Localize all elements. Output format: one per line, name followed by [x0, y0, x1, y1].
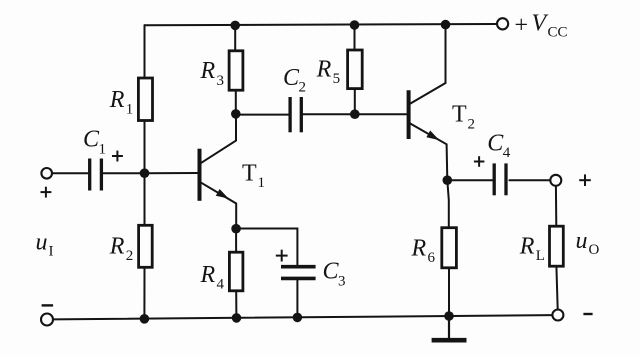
wire bottom ground rail: [53, 315, 553, 319]
label uO: [576, 228, 600, 258]
node rail-R2 bottom junction: [140, 314, 150, 324]
resistor R2: [139, 225, 153, 267]
wire R3 bottom to node B: [235, 90, 237, 114]
svg-text:R: R: [109, 233, 125, 259]
node rail-T2 collector junction: [441, 20, 451, 30]
capacitor C4: [494, 163, 506, 195]
svg-text:O: O: [589, 242, 600, 258]
svg-text:4: 4: [217, 277, 225, 293]
resistor R6: [442, 228, 457, 268]
wire R5 bottom to node C: [354, 89, 356, 115]
resistor R3: [229, 51, 243, 90]
label + polarity C3: [276, 250, 288, 262]
svg-text:R: R: [109, 87, 125, 113]
node rail-R5 junction: [350, 20, 360, 30]
wire top supply rail: [145, 24, 498, 25]
wire node E to C4: [447, 179, 492, 181]
wire R2 bottom to ground rail: [143, 267, 145, 319]
label T2: [452, 102, 475, 133]
svg-text:C: C: [323, 259, 340, 285]
wire node D to C3 top: [236, 229, 297, 265]
svg-text:1: 1: [99, 141, 107, 157]
svg-text:V: V: [532, 10, 549, 36]
label + polarity C4: [474, 156, 485, 167]
label R2: [109, 233, 134, 264]
terminal output top: [550, 175, 561, 186]
svg-text:3: 3: [338, 273, 346, 289]
resistor R1: [138, 78, 152, 121]
node D T1 emitter junction: [231, 224, 241, 234]
wire R6 bottom to ground rail: [448, 268, 450, 316]
label R6: [411, 235, 436, 266]
label C2: [283, 65, 306, 96]
wire RL bottom to output bottom terminal: [556, 266, 557, 309]
label C4: [487, 130, 511, 161]
wire C4 to output terminal: [509, 179, 550, 181]
transistor T1: [200, 149, 229, 201]
wire C1 to node A: [103, 172, 145, 174]
svg-text:C: C: [283, 65, 300, 91]
label + polarity C1: [112, 151, 123, 162]
label R5: [316, 56, 341, 87]
wire node A to T1 base: [145, 172, 198, 174]
label R4: [200, 262, 225, 293]
node C R5 bottom junction: [350, 109, 360, 119]
svg-text:3: 3: [217, 73, 225, 89]
svg-text:5: 5: [333, 71, 341, 87]
svg-text:T: T: [242, 160, 257, 186]
svg-text:CC: CC: [548, 24, 568, 40]
svg-text:R: R: [200, 262, 216, 288]
node E T2 emitter junction: [443, 175, 453, 185]
wire R5 top drop from rail: [354, 25, 356, 50]
wire R1 bottom to input node to R2 top: [144, 121, 146, 226]
resistor R4: [229, 252, 243, 291]
terminal input bottom: [41, 314, 53, 326]
label C1: [83, 127, 106, 158]
wire output terminal down to RL top: [555, 186, 557, 226]
label T1: [242, 160, 265, 191]
wire T1 collector up to node B: [201, 114, 237, 164]
svg-text:T: T: [452, 102, 467, 128]
resistor RL: [550, 226, 564, 266]
wire R1 top drop from rail: [144, 25, 146, 78]
label - at input bottom terminal: [42, 304, 54, 306]
node rail-C3 bottom junction: [293, 313, 303, 323]
svg-text:4: 4: [503, 145, 511, 161]
label C3: [323, 259, 346, 290]
wire T2 emitter down to node E: [410, 123, 447, 180]
terminal output bottom: [552, 310, 563, 321]
svg-text:R: R: [411, 235, 427, 261]
node rail-R4 bottom junction: [232, 313, 242, 323]
capacitor C2: [290, 97, 301, 132]
resistor R5: [348, 50, 363, 89]
node B R3 bottom junction: [231, 109, 241, 119]
wire R3 top drop from rail: [234, 25, 236, 50]
svg-text:R: R: [316, 56, 332, 82]
svg-text:2: 2: [126, 248, 134, 264]
label uI: [36, 229, 54, 259]
label + at output terminal: [579, 174, 591, 186]
capacitor C3: [281, 267, 316, 279]
svg-text:u: u: [576, 228, 588, 254]
svg-text:+: +: [515, 12, 529, 38]
svg-text:2: 2: [299, 80, 307, 96]
wire R4 bottom to ground rail: [235, 291, 237, 318]
terminal input top: [41, 168, 52, 179]
label RL: [519, 233, 545, 264]
label R1: [109, 87, 134, 118]
wire node B to C2: [236, 114, 288, 116]
svg-text:R: R: [200, 58, 216, 84]
wire C2 to node C: [303, 113, 355, 115]
node rail-ground junction: [444, 311, 454, 321]
svg-text:u: u: [36, 229, 48, 255]
svg-text:2: 2: [468, 117, 476, 133]
wire node E down to R6 top: [447, 180, 449, 228]
terminal VCC: [497, 18, 508, 29]
wire node C to T2 base: [355, 113, 407, 115]
label +VCC: [515, 10, 568, 40]
label - at output bottom terminal: [583, 313, 592, 315]
wire T2 collector up to rail: [410, 25, 446, 104]
svg-text:R: R: [519, 233, 535, 259]
svg-text:1: 1: [258, 175, 266, 191]
svg-text:I: I: [49, 243, 54, 259]
svg-text:C: C: [83, 127, 100, 153]
wire R4 top from node D: [235, 229, 237, 253]
svg-text:L: L: [536, 248, 545, 264]
svg-text:6: 6: [428, 250, 436, 266]
svg-text:1: 1: [126, 102, 134, 118]
capacitor C1: [90, 159, 102, 191]
svg-text:C: C: [487, 130, 504, 156]
wire T1 emitter down to node D: [201, 182, 237, 228]
node rail-R3 junction: [230, 21, 240, 31]
node A C1 input junction: [140, 168, 150, 178]
wire C3 bottom to ground rail: [296, 280, 298, 317]
wire input terminal to C1: [52, 172, 88, 174]
label R3: [200, 58, 225, 89]
transistor T2: [409, 90, 440, 140]
label + at input terminal: [41, 187, 52, 198]
ground: [432, 316, 467, 340]
